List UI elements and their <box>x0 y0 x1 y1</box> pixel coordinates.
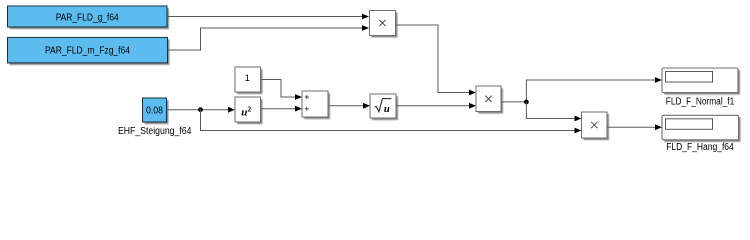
wire P2 output to outport FLD_F_Normal_f1 <box>501 80 656 102</box>
wire PAR_FLD_m_Fzg_f64 to P1 input2 <box>168 28 364 50</box>
svg-text:FLD_F_Normal_f1: FLD_F_Normal_f1 <box>666 97 735 108</box>
arrowhead P2 input2 <box>469 103 476 109</box>
product block P1 <box>370 11 398 38</box>
wire u^2 to sum input2 <box>261 108 297 110</box>
arrowhead P1 input1 <box>362 14 369 20</box>
arrowhead outport FLD_F_Normal_f1 <box>655 77 662 83</box>
arrowhead P1 input2 <box>362 25 369 31</box>
arrowhead sum input2 <box>295 106 302 112</box>
svg-text:1: 1 <box>245 73 250 84</box>
arrowhead sum input1 <box>295 94 302 100</box>
product block P2 <box>476 86 503 114</box>
wire sqrt to P2 input2 <box>396 105 470 107</box>
wire P1 output to P2 input1 <box>396 25 471 93</box>
svg-text:PAR_FLD_g_f64: PAR_FLD_g_f64 <box>56 13 120 24</box>
arrowhead sqrt input <box>363 103 370 109</box>
product block P3 <box>582 112 610 140</box>
junction dot on 0.08 wire <box>198 107 203 112</box>
svg-text:u: u <box>384 104 390 115</box>
wire PAR_FLD_g_f64 to P1 input1 <box>167 16 363 18</box>
math function block u^2 <box>235 97 263 124</box>
outport FLD_F_Normal_f1 <box>662 68 740 108</box>
constant block 1 <box>235 67 263 94</box>
svg-text:EHF_Steigung_f64: EHF_Steigung_f64 <box>118 126 192 137</box>
wire P2 output branch to P3 input1 <box>526 102 575 119</box>
wire P3 output to outport FLD_F_Hang_f64 <box>607 126 656 128</box>
svg-text:FLD_F_Hang_f64: FLD_F_Hang_f64 <box>666 142 734 153</box>
wire constant 1 to sum input1 <box>261 80 297 98</box>
constant block PAR_FLD_g_f64 <box>8 6 170 29</box>
wire 0.08 to u^2 <box>167 109 230 111</box>
svg-text:0.08: 0.08 <box>146 105 163 116</box>
sum block <box>302 91 330 119</box>
outport FLD_F_Hang_f64 <box>662 115 741 153</box>
wire 0.08 branch to P3 input2 <box>201 110 576 131</box>
wire sum to sqrt <box>328 105 364 107</box>
arrowhead P2 input1 <box>469 90 476 96</box>
arrowhead u^2 input <box>228 107 235 113</box>
junction dot on P2 output <box>524 100 529 105</box>
arrowhead P3 input2 <box>575 128 582 134</box>
svg-text:PAR_FLD_m_Fzg_f64: PAR_FLD_m_Fzg_f64 <box>45 45 131 56</box>
arrowhead outport FLD_F_Hang_f64 <box>655 124 662 130</box>
constant block 0.08 (EHF_Steigung_f64) <box>143 98 169 124</box>
arrowhead P3 input1 <box>575 116 582 122</box>
sqrt block <box>370 94 398 120</box>
constant block PAR_FLD_m_Fzg_f64 <box>8 37 170 65</box>
